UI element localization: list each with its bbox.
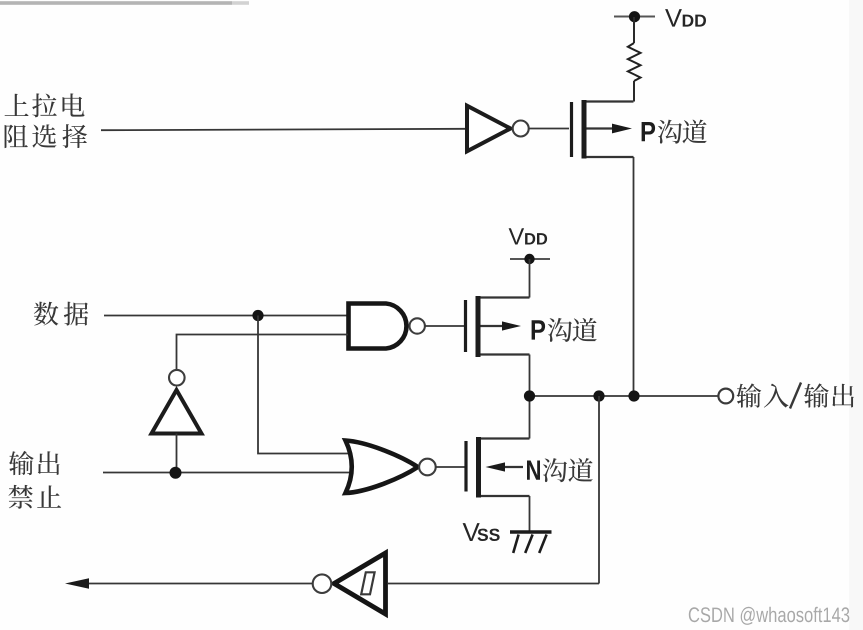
label 输入/输出	[737, 383, 854, 407]
label 禁止	[9, 485, 62, 509]
label VDD (top)	[665, 9, 706, 27]
I/O pad terminal circle	[718, 389, 733, 404]
label 输出	[9, 451, 60, 475]
wire U1 bubble to Q1 gate	[529, 128, 569, 130]
wire Q2 drain to output node	[529, 355, 531, 397]
transistor Q2 output P-MOSFET	[466, 296, 530, 357]
node VDD (top pull-up supply)	[614, 16, 655, 18]
inverter U1 (pull-up select buffer)	[467, 106, 511, 152]
wire Q1 drain down right rail	[633, 157, 635, 396]
label 上拉电	[5, 93, 85, 117]
schmitt U5 output bubble	[313, 574, 332, 593]
label VSS	[463, 523, 500, 541]
wire schmitt input branch	[598, 396, 600, 584]
arrowhead input-path	[65, 578, 89, 589]
wire: output-disable input	[103, 472, 352, 474]
junction dot node/schmitt branch	[593, 390, 604, 401]
junction dot VDD middle	[524, 254, 534, 264]
wire U4 bubble to Q3 gate	[436, 466, 465, 468]
transistor Q1 pull-up P-MOSFET	[572, 100, 634, 159]
schmitt trigger U5 (input buffer)	[334, 553, 386, 614]
junction dot node/Q2	[524, 390, 535, 401]
wire NAND second input from inverter U3	[177, 335, 349, 370]
ground symbol	[510, 532, 552, 553]
nor gate U4	[346, 441, 418, 494]
junction dot at VDD top	[629, 11, 640, 22]
label P沟道 (middle)	[532, 318, 597, 342]
wire: output node bus	[530, 395, 718, 397]
wire output node to Q3 drain	[529, 396, 531, 439]
nand U2 output bubble	[410, 318, 425, 333]
schmitt hysteresis mark	[361, 572, 374, 594]
label 数据	[34, 302, 88, 326]
junction dot data branch	[252, 310, 263, 321]
label VDD (middle)	[509, 228, 547, 244]
wire: data input	[104, 315, 348, 317]
wire U3 input from output-disable line	[176, 434, 178, 474]
watermark	[689, 607, 850, 625]
junction dot output-disable branch	[170, 467, 182, 479]
resistor R pull-up	[628, 43, 641, 81]
wire VDD dot to resistor	[633, 17, 635, 43]
inverter U1 output bubble	[513, 121, 529, 137]
wire: pull-up select input (上拉电阻选择)	[101, 129, 466, 130]
junction dot node/Q1 rail	[628, 390, 639, 401]
nor U4 output bubble	[419, 459, 436, 476]
wire VDD to Q2 source	[529, 259, 531, 298]
label 阻选择	[5, 124, 88, 148]
wire resistor to P-MOSFET source elbow	[633, 81, 635, 102]
label N沟道	[527, 458, 593, 482]
node VDD (middle) tick	[510, 258, 550, 260]
wire Q3 source to ground	[529, 496, 531, 531]
wire schmitt output to input-path arrow	[87, 583, 313, 585]
wire U2 bubble to Q2 gate	[425, 325, 464, 327]
label P沟道 (top)	[642, 120, 707, 144]
wire data branch down to NOR input	[258, 316, 353, 454]
inverter U3 (output-disable inverter, points up)	[152, 390, 202, 434]
inverter U3 output bubble	[169, 370, 185, 386]
transistor Q3 output N-MOSFET	[466, 437, 530, 498]
nand gate U2	[349, 304, 407, 349]
